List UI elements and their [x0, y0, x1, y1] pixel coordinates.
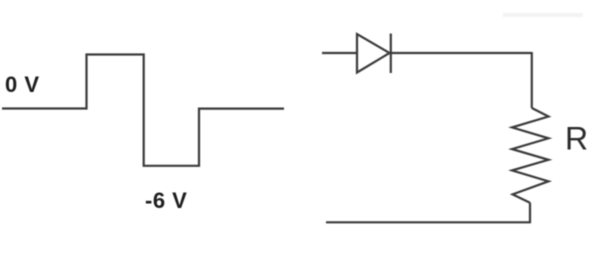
- wire: right vertical down to resistor: [531, 52, 533, 108]
- diode cathode bar: [390, 34, 392, 74]
- diode triangle (anode): [357, 34, 390, 73]
- wire: resistor bottom to bottom rail: [529, 203, 531, 223]
- wire: input to diode anode: [322, 52, 356, 54]
- wire: diode cathode to top-right corner: [391, 52, 532, 54]
- resistor R zigzag: [512, 108, 549, 203]
- svg-text:0 V: 0 V: [5, 72, 40, 97]
- svg-text:-6 V: -6 V: [145, 188, 187, 213]
- waveform: input square wave: [2, 55, 284, 166]
- decorative faint artifact line (top right): [503, 13, 583, 17]
- svg-text:R: R: [565, 121, 588, 157]
- wire: bottom rail: [326, 221, 531, 223]
